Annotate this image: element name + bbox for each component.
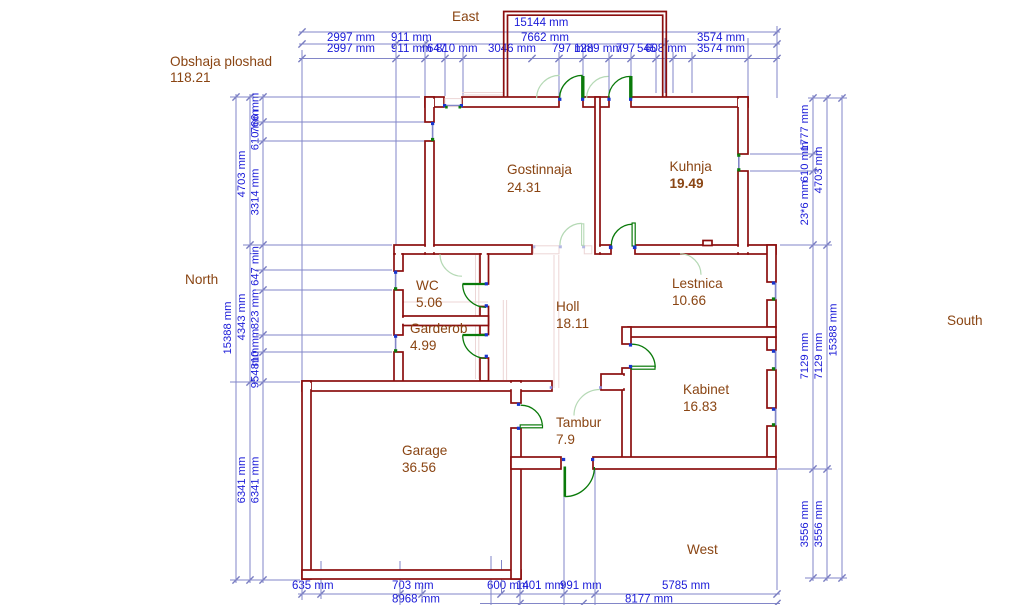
wall garage left [302, 381, 311, 579]
tick right b y=469 [823, 465, 830, 472]
dim line right col a [812, 95, 814, 581]
wall bottom band left [511, 457, 561, 469]
dim tick row3 x=425 [421, 55, 428, 62]
wall wc left seg1 [394, 254, 403, 271]
svg-text:6341 mm: 6341 mm [236, 457, 248, 504]
svg-text:610 mm: 610 mm [799, 142, 811, 182]
door mark wc a [485, 282, 488, 285]
door mark exterior a [562, 458, 565, 461]
window mark f [737, 168, 740, 171]
door garage arc [521, 405, 543, 424]
svg-text:703 mm: 703 mm [392, 580, 434, 592]
door garderob arc [463, 335, 486, 358]
wall wc right seg1 [480, 254, 489, 284]
svg-text:610 mm: 610 mm [250, 110, 262, 150]
svg-text:8177 mm: 8177 mm [625, 594, 673, 605]
dim tick row3 x=396 [392, 55, 399, 62]
door porch left leaf [581, 76, 584, 99]
porch outer wall [504, 12, 667, 98]
hidden line pair WC right [475, 255, 477, 379]
door mark garderob a [485, 333, 488, 336]
tick right total y=578 [838, 574, 845, 581]
door exterior leaf [563, 467, 566, 497]
dim line left col detail [262, 94, 264, 583]
svg-text:4.99: 4.99 [410, 338, 436, 353]
svg-text:15388 mm: 15388 mm [828, 304, 840, 357]
junction patch divider/wc right [478, 318, 482, 324]
hidden jamb mark b [582, 245, 585, 248]
hidden frame top window [445, 99, 461, 107]
ext line x=631 [630, 52, 632, 98]
wall mid band under gostinnaja [434, 245, 532, 254]
svg-text:36.56: 36.56 [402, 460, 436, 475]
door kuhnja arc [611, 224, 632, 245]
junction patch garage right/bottom band [513, 459, 519, 467]
tick left detail y=382 [259, 378, 266, 385]
dim tick row3 x=583 [579, 55, 586, 62]
wall right lestnica seg1 [767, 245, 776, 282]
tick left detail y=580 [259, 576, 266, 583]
hidden line pair Holl [553, 255, 555, 388]
dim line right col b [826, 95, 828, 581]
hidden jamb mark a [559, 245, 562, 248]
svg-text:5.06: 5.06 [416, 295, 442, 310]
tick left mid y=245 [246, 241, 253, 248]
svg-text:Kabinet: Kabinet [683, 382, 729, 397]
window garderob [395, 335, 397, 352]
wall right kabinet seg1 [767, 337, 776, 350]
tick bottom row1 x=595 [591, 590, 598, 597]
hidden wall piece left of gost door [534, 246, 560, 254]
junction patch kabinet top/right wall [767, 329, 774, 335]
door mark kuhnja a [609, 246, 613, 250]
dim line bottom row1 [298, 593, 780, 595]
tick right a y=245 [809, 241, 816, 248]
svg-text:7.9: 7.9 [556, 432, 575, 447]
svg-text:3314 mm: 3314 mm [250, 169, 262, 216]
tick left mid y=382 [246, 378, 253, 385]
dim tick row3 x=656 [652, 55, 659, 62]
dim tick row3 x=302 [298, 55, 305, 62]
dim line top row1 (15144 mm) [299, 31, 780, 33]
svg-text:Obshaja ploshad: Obshaja ploshad [170, 54, 272, 69]
wall mid band stub [600, 245, 611, 254]
dim tick row3 x=559 [555, 55, 562, 62]
wall gostinnaja left upper [425, 97, 434, 122]
dim line left col total (15388 mm) [235, 94, 237, 583]
door kabinet arc [632, 344, 656, 367]
door wc arc [463, 284, 486, 307]
junction patch divider/wc left [401, 318, 405, 324]
dim tick row1 right [773, 28, 780, 35]
door mark kuhnja b [633, 246, 637, 250]
tick right a y=98 [809, 94, 816, 101]
ext line x=777 bottom [776, 469, 778, 590]
svg-text:7129 mm: 7129 mm [813, 333, 825, 380]
door porch right leaf [629, 76, 632, 99]
dim tick row2 x=302 [298, 40, 305, 47]
ext line x=491 bottom [490, 556, 492, 605]
wall right kabinet seg3 [767, 426, 776, 457]
window mark i [394, 335, 397, 338]
wall mid band right step [748, 245, 776, 254]
svg-text:118.21: 118.21 [170, 70, 211, 85]
door mark exterior b [591, 458, 594, 461]
hidden line WC horizontal [396, 301, 488, 303]
ext line x=302 [301, 50, 303, 381]
wall tambur-kabinet lower [622, 368, 631, 460]
junction patch midbot/wc left [396, 383, 401, 389]
ext line x=692 [691, 52, 693, 93]
svg-text:6341 mm: 6341 mm [250, 457, 262, 504]
ext line x=445 [444, 52, 446, 96]
svg-text:16.83: 16.83 [683, 399, 717, 414]
hidden sill above top wall [462, 92, 503, 94]
window mark d [431, 138, 434, 141]
dim tick row3 x=673 [669, 55, 676, 62]
door exterior arc [565, 467, 595, 497]
hidden wall piece in kuhnja door gap [605, 246, 608, 254]
ext line x=673 [672, 52, 674, 93]
tick bottom row2 x=520 [516, 600, 523, 605]
dim line left col mid [249, 94, 251, 583]
wall bump on lestnica top wall [703, 241, 712, 246]
dim tick row1 left [298, 28, 305, 35]
svg-text:Garderob: Garderob [410, 321, 467, 336]
junction patch garage bottom-left corner [304, 572, 311, 577]
tick left mid y=97 [246, 93, 253, 100]
window gostinnaja left [432, 122, 434, 141]
tick bottom row1 x=422 [418, 590, 425, 597]
dim tick row3 x=463 [459, 55, 466, 62]
svg-text:1401 mm: 1401 mm [516, 580, 564, 592]
window mark n [772, 367, 775, 370]
window mark o [772, 408, 775, 411]
wall top seg1 [425, 97, 444, 107]
tick left detail y=122 [259, 118, 266, 125]
svg-text:4343 mm: 4343 mm [236, 294, 248, 341]
tick right total y=98 [838, 94, 845, 101]
ext line y=97 left [230, 96, 420, 98]
dim tick row3 x=609 [605, 55, 612, 62]
svg-text:Garage: Garage [402, 443, 447, 458]
junction patch garage right/midbot [509, 383, 523, 389]
junction patch gost left wall/mid band [423, 247, 436, 252]
svg-text:18.11: 18.11 [556, 316, 589, 331]
wall gostinnaja left lower [425, 141, 434, 254]
tick right a y=469 [809, 465, 816, 472]
door mark tambur a [550, 386, 553, 389]
svg-text:3574 mm: 3574 mm [697, 43, 745, 55]
wall wc right seg2 [480, 307, 489, 335]
tick right a y=578 [809, 574, 816, 581]
window mark k [772, 281, 775, 284]
svg-text:Lestnica: Lestnica [672, 276, 723, 291]
tick left total y=580 [232, 576, 239, 583]
door mark kabinet b [629, 365, 632, 368]
svg-text:24.31: 24.31 [507, 180, 541, 195]
wall kabinet top band [628, 327, 776, 337]
door mark garderob b [485, 355, 488, 358]
wall top seg3 [583, 97, 609, 107]
svg-text:Kuhnja: Kuhnja [670, 159, 713, 174]
junction patch mid band/wc left [396, 252, 401, 256]
junction patch kabinet band/tk wall [626, 329, 630, 335]
dim tick row2 x=425 [421, 40, 428, 47]
tick bottom row1 x=501 [497, 590, 504, 597]
ext line y=98 right [808, 97, 847, 99]
window kabinet right lower [775, 409, 777, 426]
window mark g [394, 271, 397, 274]
junction patch top-left corner [427, 99, 434, 107]
svg-text:823 mm: 823 mm [250, 289, 262, 329]
ext line y=154 right [750, 153, 818, 155]
dim tick row3 x=532 [528, 55, 535, 62]
door mark garage b [517, 427, 520, 430]
door lestnica ghost arc [680, 254, 701, 275]
svg-text:South: South [947, 313, 983, 328]
window mark b [460, 104, 463, 107]
tick bottom row1 x=321 [317, 590, 324, 597]
wall mid band under kuhnja [635, 245, 738, 254]
ext line y=122 left [256, 121, 430, 123]
svg-text:10.66: 10.66 [672, 293, 706, 308]
tick left detail y=352 [259, 348, 266, 355]
window mark a [443, 104, 446, 107]
ext line x=520 bottom [519, 571, 521, 605]
junction patch mid band/right wall corner [767, 247, 774, 254]
ext line x=609 [608, 52, 610, 98]
dim tick row2 x=396 [392, 40, 399, 47]
door gostinnaja ghost leaf [582, 224, 584, 246]
ext line x=396 [395, 41, 397, 245]
window mark a2 [445, 106, 448, 109]
ext line x=321 bottom [320, 561, 322, 599]
svg-text:4703 mm: 4703 mm [236, 151, 248, 198]
dim line top row3 [299, 58, 780, 60]
ext line y=141 left [256, 140, 430, 142]
wall garage right upper [511, 381, 521, 403]
junction patch tk wall/bottom band [624, 459, 629, 467]
wall wc left seg2 [394, 290, 403, 335]
ext line y=382 left [230, 381, 300, 383]
junction patch midbot/wc right [482, 383, 487, 389]
door garderob leaf [463, 334, 487, 336]
junction patch top-right corner [738, 99, 746, 107]
tick left mid y=580 [246, 576, 253, 583]
window mark e [737, 154, 740, 157]
tick bottom row1 x=564 [560, 590, 567, 597]
door mark porch left a [558, 98, 561, 101]
svg-text:19.49: 19.49 [670, 176, 704, 191]
wall tambur step piece [601, 374, 624, 390]
ext line y=335 left [256, 334, 392, 336]
ext line x=422 bottom [421, 586, 423, 599]
junction patch bottom band/right wall [767, 459, 774, 467]
dim line bottom row2 [480, 603, 780, 605]
window mark h [394, 287, 397, 290]
door wc ghost arc [440, 254, 462, 276]
svg-text:1289 mm: 1289 mm [574, 43, 622, 55]
tick right b y=98 [823, 94, 830, 101]
wall right kabinet seg2 [767, 370, 776, 408]
window kuhnja right [738, 154, 740, 171]
ext line y=270 left [256, 269, 392, 271]
door mark wc b [485, 304, 488, 307]
tick left detail y=245 [259, 241, 266, 248]
tick bottom row1 x=400 [396, 590, 403, 597]
door mark garage a [517, 403, 520, 406]
ext line x=665 porch [664, 38, 666, 93]
junction patch garage left top [304, 383, 311, 389]
junction patch step/tk wall [620, 376, 626, 388]
ext line x=400 bottom [399, 561, 401, 605]
junction patch kuhnja right wall/mid band [736, 247, 750, 252]
tick left detail y=290 [259, 286, 266, 293]
door mark tambur b [599, 386, 602, 389]
door mark kabinet a [629, 343, 632, 346]
junction patch mid band/wc right [482, 252, 487, 256]
door kabinet leaf [632, 366, 656, 369]
door porch right arc [609, 76, 631, 98]
dim tick row3 x=445 [441, 55, 448, 62]
door mark porch right b [629, 98, 632, 101]
ext line y=245 right [780, 244, 832, 246]
wall right lestnica seg2 [767, 300, 776, 327]
ext line y=290 left [256, 289, 392, 291]
wall top seg4 [631, 97, 748, 107]
dim tick row3 x=748 [744, 55, 751, 62]
wall wc right seg3 [480, 358, 489, 381]
svg-text:Gostinnaja: Gostinnaja [507, 162, 572, 177]
ext line x=656 [655, 52, 657, 93]
door gostinnaja ghost arc [560, 223, 582, 245]
dim line right col total [841, 95, 843, 581]
ext line x=748 [747, 38, 749, 97]
svg-text:2997 mm: 2997 mm [327, 43, 375, 55]
ext line y=580 left [230, 579, 300, 581]
dim tick row2 x=777 [773, 40, 780, 47]
dim line top row2 [299, 43, 780, 45]
wall kuhnja right lower [738, 171, 748, 254]
svg-text:647 min: 647 min [250, 246, 262, 286]
dim tick row2 x=665 [661, 40, 668, 47]
wall wc left seg3 [394, 352, 403, 382]
tick bottom row2 x=583 [579, 600, 586, 605]
hidden line pair garage right [502, 300, 504, 380]
tick left total y=97 [232, 93, 239, 100]
tick left detail y=97 [259, 93, 266, 100]
door mark porch left b [581, 98, 584, 101]
window mark b2 [459, 106, 462, 109]
tick bottom row1 x=777 [773, 590, 780, 597]
svg-text:23*6 mm: 23*6 mm [799, 181, 811, 226]
ext line y=469 right [778, 468, 832, 470]
door porch left arc [560, 75, 583, 98]
door mark porch right a [607, 98, 610, 101]
wall kuhnja right upper [738, 97, 748, 154]
wall midbot band [302, 381, 552, 391]
wall bottom band right [593, 457, 776, 469]
ext line x=595 bottom [594, 469, 596, 605]
junction patch garage right/garage bottom [513, 570, 519, 577]
door garage leaf [520, 425, 542, 428]
hidden jamb mark c [604, 245, 607, 248]
wall top seg2 [462, 97, 559, 107]
ext line x=564 bottom [563, 469, 565, 605]
tick bottom row1 x=520 [516, 590, 523, 597]
wall wc-garderob divider [403, 316, 489, 326]
tick left detail y=270 [259, 266, 266, 273]
window wc upper [395, 271, 397, 290]
porch inner wall [508, 15, 663, 97]
ext line y=578 right [805, 577, 847, 579]
svg-text:635 mm: 635 mm [292, 580, 334, 592]
tick left detail y=141 [259, 137, 266, 144]
door kuhnja leaf [632, 223, 635, 246]
window mark p [772, 423, 775, 426]
dim tick row3 x=692 [688, 55, 695, 62]
tick left detail y=335 [259, 331, 266, 338]
window mark j [394, 349, 397, 352]
window mark c [431, 122, 434, 125]
junction patch divider top [596, 99, 598, 107]
hidden jamb mark d [532, 245, 535, 248]
svg-text:North: North [185, 272, 218, 287]
ext line x=501 bottom [501, 560, 503, 594]
svg-text:East: East [452, 9, 479, 24]
ext line x=777 [776, 26, 778, 98]
svg-text:810 mm: 810 mm [436, 43, 478, 55]
tick bottom row2 x=777 [773, 600, 780, 605]
svg-text:3046 mm: 3046 mm [488, 43, 536, 55]
ext line x=583 [582, 52, 584, 98]
tick right a y=171 [809, 167, 816, 174]
svg-text:Holl: Holl [556, 299, 579, 314]
svg-text:3556 mm: 3556 mm [799, 501, 811, 548]
door tambur ghost arc [574, 390, 600, 416]
svg-text:8968 mm: 8968 mm [392, 594, 440, 605]
svg-text:15144 mm: 15144 mm [514, 17, 568, 29]
tick bottom row1 x=302 [298, 590, 305, 597]
door porch right ghost arc [587, 76, 609, 98]
wall tambur-kabinet upper [622, 327, 631, 344]
svg-text:911 mm: 911 mm [391, 43, 432, 55]
window top wall [444, 105, 462, 107]
tick right b y=245 [823, 241, 830, 248]
window mark l [772, 297, 775, 300]
tick right a y=154 [809, 150, 816, 157]
tick right b y=578 [823, 574, 830, 581]
svg-text:15388 mm: 15388 mm [222, 302, 234, 355]
wall garage right lower [511, 428, 521, 579]
svg-text:WC: WC [416, 278, 439, 293]
ext line x=302 bottom [301, 581, 303, 600]
dim tick row3 x=777 [773, 55, 780, 62]
svg-text:West: West [687, 542, 718, 557]
window kabinet right upper [775, 351, 777, 370]
junction patch divider/mid stub [598, 247, 602, 252]
window lestnica right [775, 283, 777, 300]
ext line y=171 right [750, 170, 818, 172]
svg-text:7129 mm: 7129 mm [799, 333, 811, 380]
wall divider gost-kuhnja [595, 97, 600, 254]
door porch left ghost arc [537, 75, 560, 98]
ext line x=463 [462, 52, 464, 96]
ext line y=352 left [256, 351, 392, 353]
wall mid band left step [394, 245, 425, 254]
ext line y=245 left [243, 244, 392, 246]
